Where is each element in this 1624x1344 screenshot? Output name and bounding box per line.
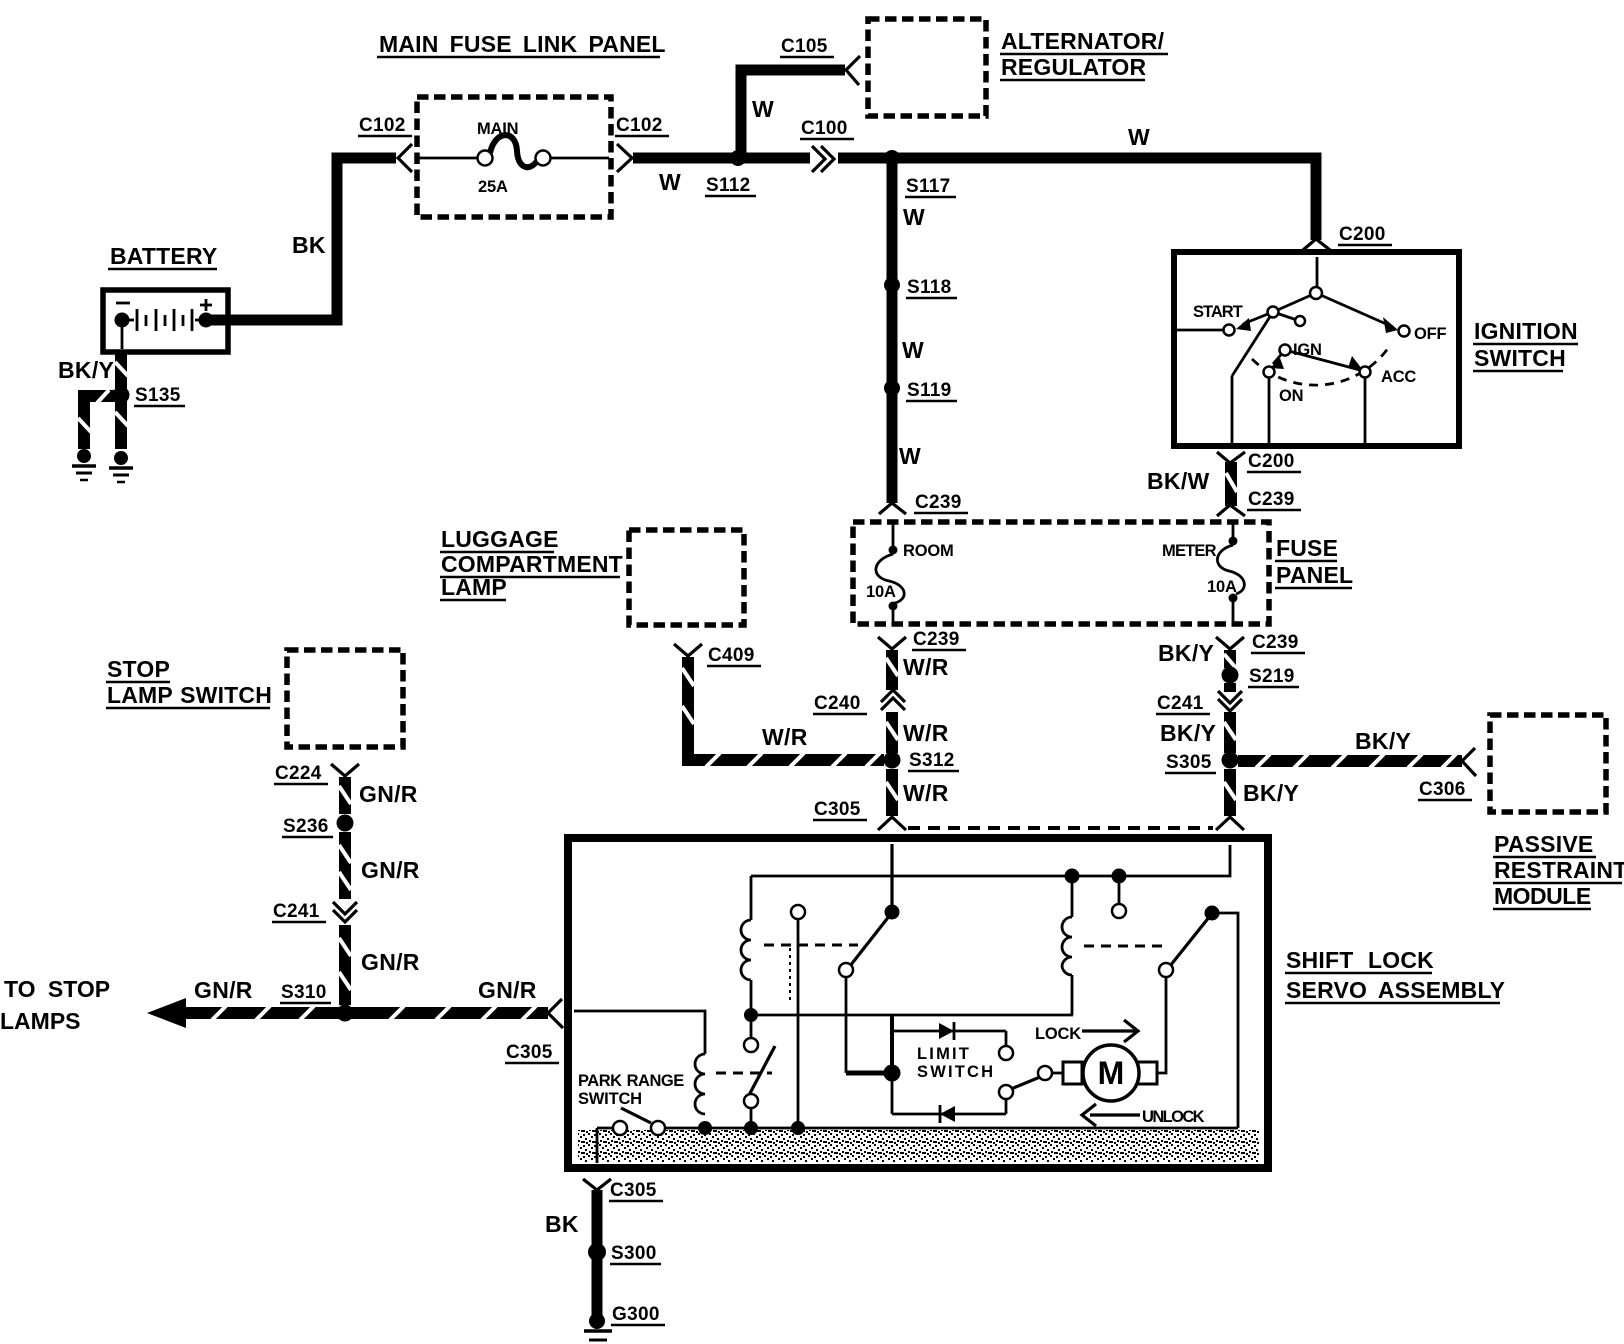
svg-text:GN/R: GN/R <box>361 949 420 975</box>
diode lock direction <box>939 1023 954 1039</box>
svg-text:S219: S219 <box>1249 666 1295 687</box>
servo bus line <box>751 1014 1073 1017</box>
thick link to limit switch node <box>846 1071 886 1076</box>
svg-text:BK/Y: BK/Y <box>58 357 114 383</box>
arrow to stop lamps <box>147 998 186 1028</box>
svg-text:START: START <box>1193 303 1243 321</box>
ignition arrow to ON <box>1270 358 1284 369</box>
unlock arrow <box>1090 1113 1140 1116</box>
svg-text:W: W <box>1128 124 1150 150</box>
svg-text:C102: C102 <box>359 115 406 136</box>
connector C100 inline chevrons <box>810 148 838 169</box>
main fuse element in fuse link panel <box>419 135 609 167</box>
wire GN/R stop lamp switch chain (vertical) <box>339 777 351 1005</box>
svg-text:PANEL: PANEL <box>1276 562 1353 588</box>
svg-text:W/R: W/R <box>903 720 949 746</box>
connector C239 fishtail above fuse panel right <box>1217 505 1245 516</box>
rail junction NO contact <box>791 1121 805 1135</box>
splice S117 <box>884 150 900 166</box>
svg-text:W/R: W/R <box>762 724 808 750</box>
wire rail to C305 out <box>596 1128 599 1163</box>
svg-text:C105: C105 <box>781 36 828 57</box>
splice S300 <box>588 1243 606 1261</box>
fuse METER 10A in fuse panel <box>1217 524 1244 622</box>
svg-text:C305: C305 <box>610 1180 657 1201</box>
servo internal: W/R input line <box>890 844 893 906</box>
svg-text:UNLOCK: UNLOCK <box>1142 1108 1205 1126</box>
svg-text:MODULE: MODULE <box>1494 883 1591 909</box>
motor M1 <box>1063 1062 1082 1084</box>
connector C239 fishtail below fuse panel left <box>878 637 906 649</box>
connector C200 fishtail below ignition <box>1217 452 1245 463</box>
connector C200 fishtail top <box>1303 239 1330 250</box>
svg-text:M: M <box>1098 1055 1125 1091</box>
svg-text:LOCK: LOCK <box>1035 1025 1081 1043</box>
park switch contact left <box>613 1121 627 1135</box>
main fuse link panel dashed box <box>417 97 611 217</box>
connector C239 fishtail (below S119 wire) <box>879 503 906 514</box>
rail junction relay1 <box>744 1121 758 1135</box>
svg-text:GN/R: GN/R <box>194 977 253 1003</box>
wire contact to ground rail <box>797 919 800 1126</box>
fuse panel dashed box <box>853 522 1269 624</box>
svg-text:C241: C241 <box>273 901 320 922</box>
svg-text:TO STOP: TO STOP <box>4 976 110 1002</box>
servo relay1 contact <box>839 963 853 977</box>
connector C305 fishtail below servo <box>583 1179 611 1190</box>
wire BK/Y S305 to passive restraint module <box>1238 754 1462 768</box>
svg-text:C224: C224 <box>275 763 322 784</box>
park range feed line <box>574 1011 705 1054</box>
svg-text:LAMP SWITCH: LAMP SWITCH <box>107 682 272 708</box>
svg-text:W: W <box>899 443 921 469</box>
svg-text:STOP: STOP <box>107 656 170 682</box>
relay1 lower switch arm <box>748 1046 775 1097</box>
svg-text:BK/Y: BK/Y <box>1160 720 1216 746</box>
relay1 lower contact a <box>744 1038 758 1052</box>
svg-text:C241: C241 <box>1157 693 1204 714</box>
splice S119 <box>884 380 900 396</box>
ground at S135 right <box>109 451 133 482</box>
ignition pivot contact <box>1310 287 1322 299</box>
stop lamp switch dashed box <box>287 650 403 747</box>
connector C305 fishtail left of servo <box>548 999 563 1028</box>
svg-text:C100: C100 <box>801 118 848 139</box>
mech link dashes relay1 <box>764 944 858 947</box>
ignition IGN contact <box>1280 345 1291 356</box>
svg-text:REGULATOR: REGULATOR <box>1001 54 1147 80</box>
ignition contact B <box>1268 307 1279 318</box>
ignition arrow to START <box>1236 318 1251 331</box>
limit switch loop <box>890 1016 894 1073</box>
svg-text:OFF: OFF <box>1414 325 1447 343</box>
wire W/R fuse panel to servo (vertical) <box>886 650 898 816</box>
mech link dashes relay2 <box>1084 945 1168 948</box>
svg-text:BATTERY: BATTERY <box>110 243 217 269</box>
splice S305 <box>1222 752 1239 769</box>
connector C241 inline chevrons left <box>333 902 357 922</box>
connector C305 fishtail below S312 <box>878 817 906 830</box>
servo top node b <box>1112 869 1127 884</box>
ground G300 <box>584 1313 612 1340</box>
svg-text:SWITCH: SWITCH <box>917 1063 995 1081</box>
svg-text:BK: BK <box>545 1211 579 1237</box>
svg-text:S300: S300 <box>611 1243 657 1264</box>
wire BK/Y fuse panel to servo (vertical right) <box>1224 650 1236 816</box>
fuse ROOM 10A in fuse panel <box>876 524 904 622</box>
svg-text:RESTRAINT: RESTRAINT <box>1494 857 1624 883</box>
ignition OFF contact <box>1399 326 1410 337</box>
dashed connector line C305 <box>908 826 1213 830</box>
svg-text:MAIN: MAIN <box>477 120 518 138</box>
wire S117 down to C239 (W) <box>887 163 898 503</box>
limit contact lower <box>999 1085 1013 1099</box>
diode unlock direction <box>940 1106 955 1122</box>
svg-text:PASSIVE: PASSIVE <box>1494 831 1593 857</box>
svg-text:SWITCH: SWITCH <box>578 1090 642 1108</box>
svg-text:GN/R: GN/R <box>361 857 420 883</box>
svg-text:10A: 10A <box>866 583 896 601</box>
connector C102 right fishtail <box>617 144 632 172</box>
connector C239 fishtail below fuse panel right <box>1216 637 1244 649</box>
limit contact upper <box>1005 1031 1008 1046</box>
ignition START contact <box>1224 325 1235 336</box>
svg-text:LAMPS: LAMPS <box>0 1008 81 1034</box>
svg-text:C239: C239 <box>1252 632 1299 653</box>
svg-text:IGN: IGN <box>1293 341 1322 359</box>
ignition ACC contact <box>1360 367 1371 378</box>
servo contact NO left <box>791 905 805 919</box>
park switch arm <box>621 1108 651 1123</box>
wire relay2 common to rail <box>1212 913 1238 1128</box>
svg-text:S118: S118 <box>907 277 952 298</box>
connector C409 fishtail <box>674 644 702 656</box>
limit switch arm <box>1011 1077 1040 1089</box>
shift lock servo assembly box <box>568 838 1268 1168</box>
wire S112 up to C105 (W) <box>741 70 845 163</box>
limit switch node <box>884 1065 901 1082</box>
connector C306 fishtail <box>1462 748 1476 776</box>
wire from relay1 contact down <box>845 977 848 1073</box>
svg-text:BK/Y: BK/Y <box>1158 640 1214 666</box>
svg-text:METER: METER <box>1162 542 1217 560</box>
splice S310 <box>337 1005 354 1022</box>
svg-text:S119: S119 <box>907 380 952 401</box>
relay coil1 <box>741 920 751 980</box>
passive restraint module dashed box <box>1490 715 1606 812</box>
svg-text:SWITCH: SWITCH <box>1474 345 1566 371</box>
rail junction coil2 <box>698 1121 712 1135</box>
svg-text:SERVO ASSEMBLY: SERVO ASSEMBLY <box>1286 977 1505 1003</box>
wire top node to coil3 <box>1071 883 1074 917</box>
svg-text:ON: ON <box>1279 387 1303 405</box>
svg-text:LIMIT: LIMIT <box>917 1045 971 1063</box>
svg-text:ALTERNATOR/: ALTERNATOR/ <box>1001 28 1165 54</box>
svg-text:MAIN FUSE LINK PANEL: MAIN FUSE LINK PANEL <box>379 31 666 57</box>
svg-text:C305: C305 <box>506 1042 553 1063</box>
limit pivot contact <box>1038 1066 1052 1080</box>
park range coil <box>695 1054 705 1114</box>
svg-text:ROOM: ROOM <box>903 542 954 560</box>
connector C241 inline chevrons right <box>1218 691 1242 711</box>
wire ignition to fuse panel BK/W hatched with C200/C239 <box>1226 462 1237 506</box>
svg-text:W: W <box>752 96 774 122</box>
splice S112 <box>730 150 746 166</box>
svg-text:BK/Y: BK/Y <box>1355 728 1411 754</box>
ignition ON contact <box>1264 367 1275 378</box>
wire C102 to C200 (W) through S112,S117 <box>633 158 1316 240</box>
splice S312 <box>884 752 901 769</box>
splice S236 <box>337 815 354 832</box>
svg-text:W: W <box>902 337 924 363</box>
wire BK servo to ground <box>592 1190 603 1318</box>
connector C240 inline chevrons <box>881 690 905 710</box>
servo node relay1 common <box>885 905 900 920</box>
svg-text:S236: S236 <box>283 816 329 837</box>
wire coil3 to bus <box>1071 975 1074 1015</box>
contact NO right <box>1118 883 1121 904</box>
battery B1 box <box>103 290 228 352</box>
alternator/regulator dashed box <box>868 19 986 116</box>
relay1 lower contact b <box>744 1094 758 1108</box>
servo top node a <box>1065 869 1080 884</box>
battery terminal negative <box>115 313 130 328</box>
lock arrow <box>1082 1029 1135 1032</box>
relay coil3 <box>1062 917 1072 975</box>
svg-text:BK/Y: BK/Y <box>1243 780 1299 806</box>
ignition switch internals <box>1177 257 1393 443</box>
svg-text:C200: C200 <box>1248 451 1295 472</box>
luggage compartment lamp dashed box <box>629 530 744 625</box>
svg-text:LAMP: LAMP <box>441 574 507 600</box>
svg-text:C102: C102 <box>616 115 663 136</box>
svg-text:GN/R: GN/R <box>478 977 537 1003</box>
svg-text:S117: S117 <box>906 176 951 197</box>
svg-text:SHIFT LOCK: SHIFT LOCK <box>1286 947 1434 973</box>
svg-text:S135: S135 <box>135 385 181 406</box>
svg-text:C200: C200 <box>1339 224 1386 245</box>
splice S135 <box>113 387 130 404</box>
wire battery ground BK/Y hatched <box>78 352 128 449</box>
svg-text:S305: S305 <box>1166 752 1212 773</box>
svg-text:S312: S312 <box>909 750 955 771</box>
svg-text:C240: C240 <box>814 693 861 714</box>
svg-text:C306: C306 <box>1419 779 1466 800</box>
connector C305 fishtail below S305 <box>1216 817 1244 830</box>
connector C105 fishtail <box>846 56 860 85</box>
svg-text:GN/R: GN/R <box>359 781 418 807</box>
wire W/R luggage lamp to S312 <box>682 657 884 767</box>
park switch contact right <box>651 1121 665 1135</box>
svg-text:W: W <box>659 169 681 195</box>
ground at S135 left <box>72 449 96 480</box>
battery terminal positive <box>199 313 214 328</box>
wire GN/R to stop lamps (horizontal) <box>183 1006 548 1020</box>
svg-text:LUGGAGE: LUGGAGE <box>441 526 559 552</box>
svg-text:C239: C239 <box>915 492 962 513</box>
wire battery to C102 (BK) <box>210 158 396 320</box>
ignition switch box <box>1174 252 1459 446</box>
splice S219 <box>1222 667 1239 684</box>
mech link dashes park <box>716 1072 772 1075</box>
svg-text:BK: BK <box>292 232 326 258</box>
servo assembly stipple band <box>578 1130 1259 1162</box>
svg-text:PARK RANGE: PARK RANGE <box>578 1072 684 1090</box>
svg-text:C239: C239 <box>913 629 960 650</box>
connector C102 left fishtail <box>398 144 412 172</box>
svg-text:W: W <box>903 204 925 230</box>
svg-text:BK/W: BK/W <box>1147 468 1210 494</box>
svg-text:25A: 25A <box>478 178 508 196</box>
svg-text:G300: G300 <box>612 1304 660 1325</box>
servo relay1 switch arm <box>850 915 890 966</box>
svg-text:10A: 10A <box>1207 578 1237 596</box>
svg-text:W/R: W/R <box>903 654 949 680</box>
svg-text:ACC: ACC <box>1381 368 1416 386</box>
svg-text:S310: S310 <box>281 982 327 1003</box>
wire relay2 contact to motor <box>1157 977 1166 1073</box>
svg-text:C305: C305 <box>814 799 861 820</box>
svg-text:C409: C409 <box>708 645 755 666</box>
servo top distribution line <box>751 845 1230 876</box>
ignition arrow to OFF <box>1383 317 1398 333</box>
node coil1/bus junction <box>744 1008 758 1022</box>
battery internal symbol <box>116 299 212 349</box>
ignition arrow to ACC <box>1348 356 1362 369</box>
wire coil1 to bus <box>750 980 753 1014</box>
ignition contact small <box>1295 316 1305 326</box>
svg-text:C239: C239 <box>1248 489 1295 510</box>
svg-text:IGNITION: IGNITION <box>1474 318 1578 344</box>
wire top line down to coil1 <box>750 876 753 920</box>
connector C224 fishtail <box>331 764 359 776</box>
svg-text:FUSE: FUSE <box>1276 535 1338 561</box>
relay2 contact <box>1159 963 1173 977</box>
ground rail <box>597 1127 614 1130</box>
splice S118 <box>884 277 900 293</box>
servo node relay2 common <box>1205 906 1220 921</box>
relay2 switch arm <box>1170 916 1210 966</box>
svg-text:S112: S112 <box>706 175 751 196</box>
svg-text:W/R: W/R <box>903 780 949 806</box>
